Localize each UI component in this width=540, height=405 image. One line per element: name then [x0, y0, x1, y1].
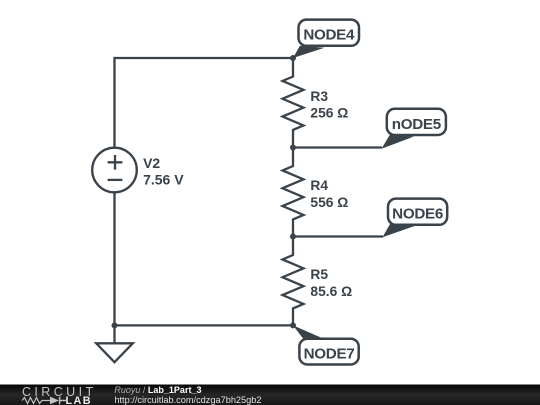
svg-text:R5: R5: [310, 267, 328, 282]
svg-text:LAB: LAB: [66, 395, 92, 405]
svg-text:nODE5: nODE5: [392, 116, 442, 133]
svg-text:R4: R4: [310, 178, 328, 193]
node flag nODE5: [382, 109, 446, 149]
logo diode symbol: [50, 397, 59, 405]
junction ground node: [112, 322, 118, 328]
svg-text:556 Ω: 556 Ω: [310, 195, 348, 210]
resistor R5: [283, 237, 304, 326]
ground symbol: [96, 343, 133, 362]
node flag NODE4: [293, 20, 359, 58]
junction node NODE7: [290, 322, 296, 328]
footer bar: [0, 385, 540, 405]
logo resistor squiggle: [22, 398, 50, 404]
wire left rail upper: [113, 57, 115, 148]
svg-text:7.56 V: 7.56 V: [143, 171, 184, 187]
wire bottom horizontal: [115, 324, 294, 326]
svg-text:NODE6: NODE6: [392, 206, 443, 223]
svg-text:http://circuitlab.com/cdzga7bh: http://circuitlab.com/cdzga7bh25gb2: [114, 395, 261, 405]
junction node NODE6: [290, 234, 296, 240]
voltage source minus sign: [108, 179, 123, 181]
ground stub wire: [113, 325, 115, 343]
wire to nODE5 flag: [293, 146, 382, 148]
svg-text:R3: R3: [310, 89, 328, 104]
resistor R3: [283, 58, 304, 148]
junction node NODE4: [290, 55, 296, 61]
resistor R4: [283, 148, 304, 237]
voltage source plus sign: [108, 155, 123, 170]
svg-text:85.6 Ω: 85.6 Ω: [310, 284, 352, 299]
junction node nODE5: [290, 145, 296, 151]
wire to NODE6 flag: [293, 235, 383, 237]
svg-text:256 Ω: 256 Ω: [310, 106, 348, 121]
svg-text:NODE4: NODE4: [303, 27, 355, 44]
node flag NODE6: [383, 199, 448, 238]
wire left rail lower: [113, 192, 115, 325]
svg-text:NODE7: NODE7: [304, 346, 355, 363]
svg-text:Ruoyu / Lab_1Part_3: Ruoyu / Lab_1Part_3: [114, 385, 201, 395]
svg-text:V2: V2: [143, 155, 160, 171]
voltage source V2 body: [92, 148, 137, 193]
wire top horizontal: [115, 57, 294, 59]
node flag NODE7: [293, 325, 359, 364]
